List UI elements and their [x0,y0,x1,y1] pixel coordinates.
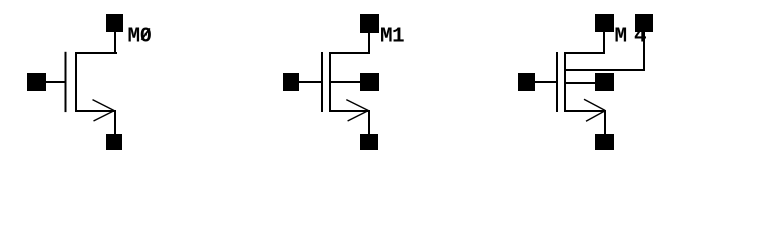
transistor M4 : second top pin square [635,14,654,32]
transistor M4 : source vertical stem [604,110,606,135]
transistor M4 : gate pin square [518,73,534,91]
transistor M1 : source arrow lower stroke [348,111,367,121]
transistor M0 : drain vertical stem [114,31,116,54]
transistor M1 : bulk pin square [360,73,379,91]
transistor M1 : channel bar [329,52,331,112]
transistor M4 : auxiliary wire horizontal segment (second top pin to body) [564,69,645,71]
transistor M4 : channel bar [564,52,566,112]
transistor M1 : gate bar [321,52,323,112]
transistor M0 : gate lead wire [45,81,65,83]
transistor M1 : drain horizontal wire [329,52,370,54]
transistor M4 : drain vertical stem [603,31,605,54]
transistor M0 : gate pin square [27,73,46,91]
transistor M0 : gate bar [65,52,67,112]
transistor M0 : source pin square [106,134,123,150]
transistor M1 : drain pin square [360,14,379,32]
transistor M4 : drain pin square [595,14,614,32]
arrows overlay [0,0,769,178]
transistor M4 : bulk pin square [595,73,614,91]
transistor M0 : channel bar [75,52,77,112]
transistor M4 : auxiliary wire vertical segment [643,31,645,71]
transistor M1 : drain vertical stem [368,31,370,54]
transistor M1 : gate lead wire [299,81,321,83]
transistor M1 : source arrow upper stroke [346,100,368,111]
transistor M4 : bulk lead wire [566,82,595,84]
transistor M4 : source arrow lower stroke [586,111,604,121]
transistor M0 : source arrow upper stroke [93,100,115,111]
transistor M0 : source vertical stem [114,110,116,135]
transistor M4 : source horizontal wire [564,110,606,112]
transistor M1 : source pin square [360,134,379,150]
transistor M4 : drain horizontal wire [564,52,605,54]
transistor M4 : gate lead wire [535,81,557,83]
transistor M1 : source horizontal wire [329,110,370,112]
transistor M1 : bulk lead wire [331,81,360,83]
transistor M4 : source arrow upper stroke [584,99,605,110]
transistor M0 : source arrow lower stroke [94,111,114,121]
transistor M4 : source pin square [595,134,614,150]
transistor M0 : drain horizontal wire [75,52,117,54]
transistor M1 : gate pin square [283,73,299,91]
transistor M4 : gate bar [556,52,558,112]
slash of slashed zero in label MØ [141,28,149,39]
transistor M1 : source vertical stem [368,110,370,135]
transistor M0 : drain pin square [106,14,123,32]
transistor M0 : source horizontal wire [75,110,116,112]
